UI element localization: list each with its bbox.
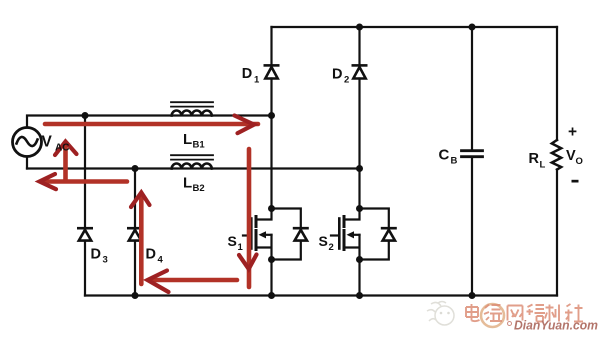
transistor S2	[345, 209, 360, 220]
svg-text:D: D	[91, 247, 101, 263]
svg-text:3: 3	[103, 255, 108, 266]
S1 body diode loop	[272, 209, 301, 260]
svg-text:V: V	[42, 134, 53, 151]
svg-text:D: D	[146, 247, 156, 263]
node dot rail D4	[132, 292, 139, 299]
node dot rail S2	[356, 292, 363, 299]
diode D3 leg wires	[84, 116, 86, 296]
svg-text:S: S	[319, 233, 328, 249]
wire S1 leg upper	[270, 116, 272, 209]
red current arrows	[40, 116, 259, 293]
inductor LB1 humps	[172, 111, 212, 116]
node dot S2 source	[356, 256, 363, 263]
resistor RL zigzag	[552, 140, 561, 170]
svg-text:S: S	[228, 233, 237, 249]
svg-text:B1: B1	[193, 140, 206, 151]
capacitor CB plates	[462, 151, 483, 157]
transistor S1	[257, 209, 272, 220]
wire red arrow A2 shaft (return to source)	[41, 179, 127, 184]
svg-text:L: L	[183, 175, 192, 192]
node dot rail CB	[469, 292, 476, 299]
wire below CB	[471, 157, 473, 296]
svg-text:2: 2	[344, 75, 349, 86]
S2 body diode symbol	[382, 227, 395, 230]
svg-text:O: O	[576, 156, 583, 167]
svg-text:DianYuan.com: DianYuan.com	[514, 318, 598, 333]
diode D4 leg wires	[134, 169, 136, 296]
wire right leg (to load)	[556, 27, 558, 140]
wire S1 leg lower	[270, 260, 272, 296]
svg-text:2: 2	[329, 242, 334, 253]
wire red arrow A3 shaft (up into source)	[63, 144, 68, 180]
inductor LB2 core lines	[171, 155, 213, 159]
wire red arrow A5 head	[239, 255, 257, 270]
svg-text:1: 1	[254, 75, 260, 86]
wire red arrow A1 head	[235, 116, 255, 134]
diode D2 symbol	[353, 64, 366, 67]
diode D1 leg wires	[270, 27, 272, 116]
node dot LB1/D1/S1	[268, 112, 275, 119]
wire red arrow A6 head	[148, 271, 169, 293]
svg-text:C: C	[439, 147, 450, 164]
wire red arrow A5 shaft (down through S1)	[247, 149, 252, 287]
wire below RL	[556, 170, 558, 296]
svg-text:D: D	[332, 67, 342, 83]
watermark logo ring	[481, 304, 504, 327]
node dot CB top rail	[469, 24, 476, 31]
svg-text:L: L	[540, 160, 546, 171]
diode D3 symbol	[78, 227, 91, 230]
watermark chinese text (simulated strokes)	[466, 304, 583, 322]
node dot D3 top	[82, 112, 89, 119]
node dot S2 drain	[356, 205, 363, 212]
inductor LB2 humps	[172, 164, 212, 169]
wire S2 leg upper	[358, 169, 360, 209]
svg-text:1: 1	[238, 242, 244, 253]
svg-text:B: B	[451, 156, 458, 167]
diode D4 symbol	[128, 227, 141, 230]
wire red arrow A6 shaft (left below S1)	[149, 278, 237, 283]
wire bottom rail	[85, 294, 557, 296]
inductor LB1 core lines	[171, 102, 213, 106]
node dot LB2/S2	[356, 165, 363, 172]
svg-text:R: R	[529, 151, 540, 167]
svg-text:L: L	[183, 131, 192, 148]
node dot S1 source	[268, 256, 275, 263]
wire AC bottom (to LB2)	[27, 167, 360, 169]
svg-text:D: D	[242, 66, 252, 82]
svg-text:B2: B2	[193, 183, 205, 194]
wire red arrow A2 head	[40, 174, 57, 189]
S2 body diode loop	[360, 209, 389, 260]
svg-text:+: +	[568, 124, 577, 141]
capacitor CB leg top wire	[471, 27, 473, 150]
transistor S1 body arrow tip	[259, 231, 267, 238]
wire S2 leg lower	[358, 260, 360, 296]
node dot S1 drain	[268, 205, 275, 212]
svg-text:V: V	[566, 148, 576, 164]
label minus	[572, 180, 579, 183]
wire top rail	[272, 26, 558, 28]
watermark dianyuan.com	[508, 318, 599, 333]
node dot D4 top	[132, 165, 139, 172]
wire red arrow A3 head	[55, 142, 77, 156]
wire red arrow A4 head	[131, 193, 150, 208]
wire red arrow A4 shaft (up through D4)	[139, 195, 144, 284]
node dot D2 top rail	[356, 24, 363, 31]
diode D2 leg wires	[358, 27, 360, 169]
AC source sine	[17, 137, 38, 146]
AC source V_AC circle	[13, 128, 42, 157]
S1 body diode symbol	[294, 227, 307, 230]
node dot rail S1	[268, 292, 275, 299]
svg-text:AC: AC	[55, 143, 69, 154]
transistor S2 body arrow tip	[347, 231, 355, 238]
wire red arrow A1 shaft (through LB1)	[45, 122, 258, 127]
wire AC top (to LB1)	[27, 116, 272, 169]
diode D1 symbol	[265, 64, 278, 67]
svg-text:4: 4	[158, 255, 164, 266]
watermark mascot	[427, 302, 454, 326]
